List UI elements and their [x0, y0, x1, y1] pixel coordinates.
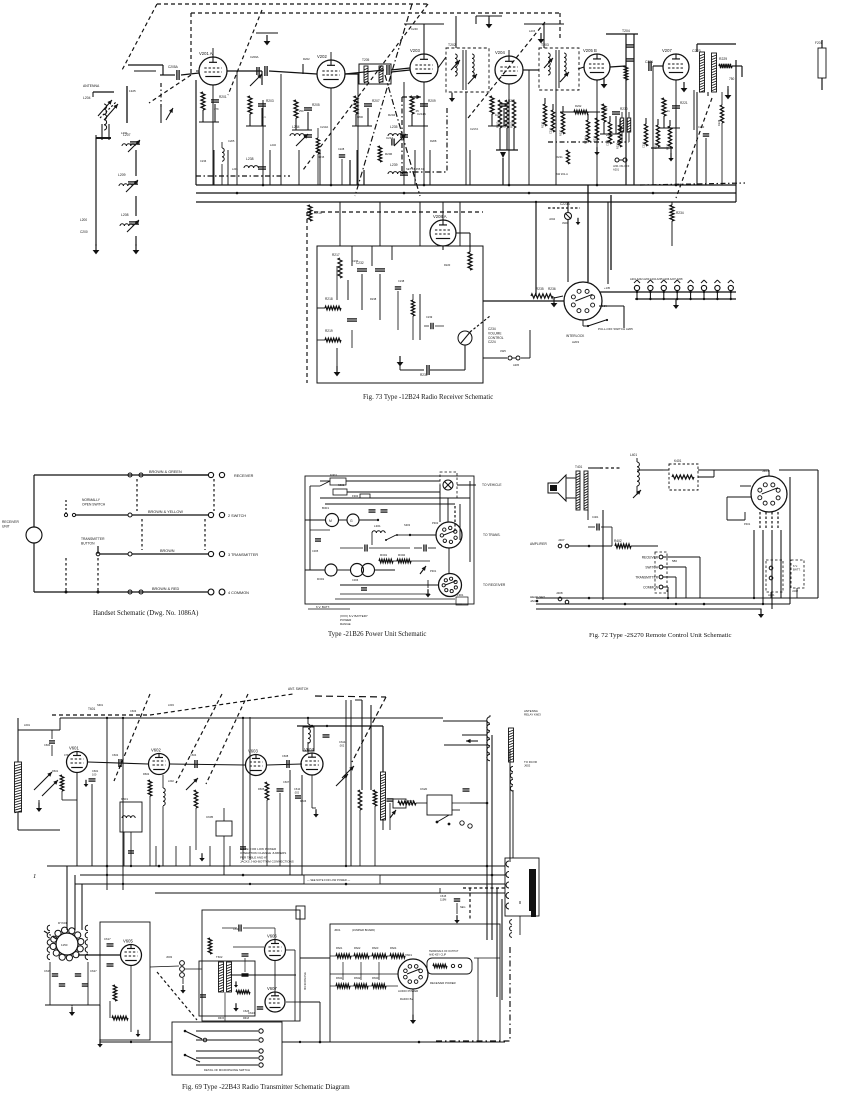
svg-text:RECEIVER POWER: RECEIVER POWER [430, 981, 456, 985]
wire [713, 470, 715, 477]
wire drop [429, 150, 431, 185]
wire drop to bus [357, 74, 359, 185]
variable-capacitor arrow [104, 104, 118, 120]
value label C627 [90, 969, 97, 973]
battery lead label [316, 605, 330, 609]
value label 6800 [357, 115, 363, 119]
relay K301 coil [330, 478, 346, 485]
capacitor C222 [626, 59, 634, 61]
page item number 1 [33, 873, 36, 880]
svg-text:P301: P301 [430, 569, 437, 573]
cable lace (dashed) [213, 479, 215, 511]
socket lead (dashed) [771, 512, 773, 530]
value label R220 [444, 263, 451, 267]
caption handset [93, 610, 198, 617]
input transformer T602 [219, 962, 224, 992]
wire [727, 519, 745, 521]
wire [223, 808, 225, 821]
svg-text:R213: R213 [510, 121, 514, 128]
svg-text:R217: R217 [332, 253, 340, 257]
coil L238 label [246, 157, 254, 161]
terminal lug [219, 589, 225, 595]
ground below T202 [449, 93, 455, 102]
value label C617 [104, 937, 111, 941]
output coupling coil L605 [381, 772, 386, 820]
wire [391, 70, 410, 72]
svg-text:3900: 3900 [562, 221, 568, 225]
wire [330, 603, 462, 605]
resistor R224 [656, 125, 659, 147]
resistor R238 [411, 300, 414, 316]
svg-text:1325: 1325 [129, 89, 136, 93]
switch S301 [385, 534, 398, 541]
svg-text:L602: L602 [168, 779, 174, 783]
value label C616 [233, 927, 240, 931]
wire to riser [470, 802, 487, 804]
svg-text:R631: R631 [336, 976, 343, 980]
wire [130, 1010, 132, 1032]
pilot lamp I301 [443, 480, 453, 490]
svg-text:J407: J407 [558, 538, 565, 542]
svg-text:P302: P302 [432, 521, 439, 525]
value label L231 [232, 167, 238, 171]
wire [371, 533, 373, 545]
wire [162, 806, 164, 830]
variable-capacitor arrow [468, 74, 477, 84]
svg-text:V203: V203 [410, 48, 420, 53]
svg-text:6 V. BATT.: 6 V. BATT. [316, 605, 330, 609]
variable-capacitor arrow [633, 490, 641, 498]
svg-text:R618: R618 [243, 1017, 250, 1020]
terminal 3 (transmitter) [659, 575, 663, 579]
wire [382, 820, 384, 830]
grid cap lead V204 [508, 50, 510, 56]
wire drop to bus [528, 70, 530, 185]
junction dot [624, 603, 627, 606]
value label R222 (vertical) [616, 142, 620, 149]
regulator contact 2 [458, 964, 461, 967]
value label T204 [622, 29, 630, 33]
svg-text:L231: L231 [232, 167, 238, 171]
value label C240 [698, 125, 705, 129]
bottom bus wire 1 [536, 597, 818, 599]
value label S303 [404, 523, 411, 527]
coil L209 winding [119, 184, 132, 186]
bus wire (AVC) [196, 192, 736, 194]
resistor R232 [574, 110, 588, 113]
modulator unit box [100, 922, 150, 1040]
svg-text:R206: R206 [385, 152, 393, 156]
wire [502, 158, 504, 185]
vertical bus h [491, 735, 493, 940]
wire [491, 114, 493, 126]
svg-text:C603: C603 [130, 709, 137, 713]
T205 secondary winding [379, 66, 383, 83]
capacitor C240 [703, 134, 709, 136]
wire drop to bus [555, 88, 557, 185]
value label C238 [398, 279, 405, 283]
wire [97, 589, 99, 592]
jack J201 contacts [615, 158, 627, 162]
handset left wire lower [33, 543, 35, 592]
svg-text:C401: C401 [592, 515, 599, 519]
wire [423, 108, 425, 126]
terminal strip TB401 (dashed) [655, 552, 667, 593]
wire [663, 556, 700, 558]
junction dot [122, 717, 124, 719]
value label R225 (vertical) [666, 143, 670, 150]
wire [182, 978, 184, 984]
dash-dot frame right [446, 108, 448, 172]
relay contact [436, 815, 451, 825]
wire [66, 866, 68, 930]
svg-text:R632: R632 [354, 976, 361, 980]
svg-text:PULL-OFF SWITCH A205: PULL-OFF SWITCH A205 [598, 327, 633, 331]
button contact [96, 552, 100, 556]
junction dot [242, 874, 245, 877]
remote socket lead 4 [780, 530, 782, 598]
junction dot [106, 874, 108, 876]
wire drop [162, 830, 164, 866]
resistor R209 [410, 96, 414, 114]
resistor R221 [662, 98, 666, 116]
value label T202 [448, 43, 456, 47]
value label 3900 [562, 221, 568, 225]
antenna switch label [288, 687, 309, 691]
cable lace (dashed) [141, 519, 143, 550]
audio amplifier section box [317, 246, 483, 383]
wire drop [227, 150, 229, 185]
wire [663, 116, 665, 128]
resistor R225 [668, 126, 671, 148]
junction dot [486, 865, 489, 868]
value label X601 [405, 953, 412, 957]
wire label BROWN [160, 549, 175, 553]
value label R223 (vertical) [541, 121, 545, 128]
value label R621 [336, 946, 343, 950]
svg-text:C223A: C223A [560, 202, 571, 206]
wire [519, 901, 521, 904]
svg-text:R219: R219 [325, 329, 333, 333]
junction dot [311, 725, 313, 727]
svg-text:C228: C228 [338, 147, 345, 151]
wire [45, 1004, 100, 1006]
value label R224 (vertical) [654, 142, 658, 149]
jack A204 contacts [508, 356, 520, 360]
coil L207 with trimmer [123, 133, 131, 137]
wire upper link [128, 64, 163, 66]
capacitor C231 [400, 173, 408, 175]
wire [305, 569, 325, 571]
wire [338, 519, 347, 521]
svg-text:X601: X601 [405, 953, 412, 957]
wire [469, 233, 471, 252]
svg-text:COMMON: COMMON [643, 585, 659, 589]
variable-capacitor arrow [466, 739, 478, 743]
svg-text:C627: C627 [90, 969, 97, 973]
wire [123, 832, 125, 866]
normally open switch label [82, 498, 106, 506]
cable lace (dashed) [204, 519, 206, 550]
pentode V204 [495, 50, 523, 84]
antenna loading coil L601 [15, 762, 22, 813]
capacitor C209 [128, 182, 138, 184]
svg-text:VOLUME: VOLUME [488, 331, 501, 335]
resistor R229 [719, 64, 732, 68]
splice terminal [128, 473, 132, 477]
socket lead (dashed) [759, 512, 761, 530]
junction dot [106, 865, 109, 868]
wire [567, 202, 569, 212]
resistor R230 [602, 104, 606, 122]
value label J401 [762, 469, 769, 473]
power connector P601 shell [505, 858, 539, 916]
bus capacitor C609 [128, 851, 134, 853]
socket ground [410, 1015, 416, 1024]
ground near T201 [725, 89, 732, 99]
wire [552, 104, 554, 110]
resistor R609 [398, 801, 416, 805]
capacitor C616 [239, 925, 241, 932]
variable-capacitor arrow [34, 772, 52, 790]
wire drop [414, 150, 416, 185]
wire [393, 560, 397, 562]
resistor R227 [561, 112, 564, 134]
transmitter power socket X601 [398, 959, 428, 989]
value label C209A [250, 55, 259, 59]
value label 1325 [129, 89, 136, 93]
wire [196, 70, 199, 72]
T603 label [408, 800, 414, 806]
relay contact block [333, 489, 347, 495]
AVC dashed feed [196, 175, 290, 177]
antenna relay K602 contacts [427, 795, 452, 815]
value label R203 [266, 99, 274, 103]
wire [330, 955, 336, 957]
value label R618 [243, 1017, 250, 1020]
value label R232 [575, 104, 582, 108]
wire drop [356, 150, 358, 185]
svg-text:J603: J603 [166, 955, 173, 959]
variable-capacitor arrow [166, 108, 173, 120]
svg-text:R203: R203 [266, 99, 274, 103]
svg-text:C205A: C205A [168, 65, 179, 69]
dynamotor D301 [325, 564, 337, 576]
C602 label [112, 753, 119, 757]
wire [411, 560, 430, 562]
dash-dot frame bottom [402, 171, 447, 173]
svg-text:L235: L235 [390, 125, 398, 129]
wire [663, 469, 669, 471]
capacitor C625 [52, 974, 58, 976]
microphone jack ground [180, 985, 185, 993]
wire [202, 110, 204, 122]
value label R632 [354, 976, 361, 980]
power unit right riser [469, 481, 471, 562]
value label R216 [314, 211, 322, 215]
electrolytic C219a [620, 118, 624, 132]
capacitor C607 [277, 789, 284, 791]
wire [567, 220, 569, 246]
svg-text:R218: R218 [325, 297, 333, 301]
value label R301 [380, 553, 388, 557]
svg-text:AMPLIFIER: AMPLIFIER [530, 542, 548, 546]
wire [307, 112, 309, 130]
power unit left riser [309, 486, 311, 570]
resistor R615 [208, 938, 212, 954]
wire [307, 742, 309, 753]
wire [628, 132, 630, 142]
svg-text:— SEE NOTE FOR LOW POWER —: — SEE NOTE FOR LOW POWER — [307, 878, 350, 882]
right riser wire [817, 470, 819, 598]
wire [404, 23, 444, 25]
wire [360, 962, 362, 980]
value label L401 [630, 453, 637, 457]
svg-text:220K: 220K [606, 133, 612, 137]
capacitor C303 [365, 545, 367, 552]
power unit wire [340, 584, 410, 586]
svg-text:DY601: DY601 [58, 921, 68, 925]
wire [17, 812, 19, 830]
remote socket lead 2 [762, 530, 764, 604]
wire [414, 547, 422, 549]
terminal label TRANSMITTER [635, 575, 658, 579]
value label L602 [168, 779, 174, 783]
wire [130, 966, 132, 1010]
svg-text:C236: C236 [200, 159, 207, 163]
wire [663, 566, 686, 568]
wire [292, 129, 312, 131]
interlock switch S202 [587, 319, 608, 327]
wire [615, 116, 617, 134]
caption Fig 73 [363, 394, 493, 401]
wire [543, 24, 545, 48]
svg-text:1: 1 [33, 873, 36, 880]
svg-text:V602: V602 [151, 748, 161, 753]
duplex diode V207 [662, 48, 689, 80]
value label T205 [362, 58, 369, 62]
capacitor C212 [392, 139, 394, 146]
resistor R603 [194, 790, 198, 808]
C608 label [282, 754, 289, 758]
switch contact [769, 576, 773, 580]
to receiver label (transmitter) [524, 760, 537, 768]
wire [286, 1001, 300, 1003]
tuning gang dashed diagonal [468, 22, 545, 118]
wire drop to bus [625, 130, 627, 185]
wire [732, 65, 742, 67]
wire [419, 294, 421, 340]
svg-text:MICROPHONE: MICROPHONE [303, 972, 307, 990]
T203 core [555, 50, 557, 88]
volume control label [488, 327, 504, 344]
tuning gang dashed vertical [190, 13, 192, 75]
resistor R623 [372, 954, 387, 958]
junction dot [703, 603, 706, 606]
wire [439, 888, 441, 893]
variable-capacitor arrow [420, 566, 426, 574]
wire [636, 458, 638, 462]
wire [130, 832, 132, 866]
power plug P302 (to transmitter) [436, 522, 462, 548]
svg-text:Fig. 72 Type -2S270 Remote C: Fig. 72 Type -2S270 Remote Control Unit … [589, 632, 731, 639]
wire down to L605 [382, 726, 384, 772]
wire label BROWN & YELLOW [148, 510, 183, 514]
junction dot [528, 192, 531, 195]
wire [698, 469, 751, 471]
value label NEG [460, 906, 465, 909]
wire [340, 547, 363, 549]
junction dot [536, 600, 539, 603]
wire [779, 469, 818, 471]
heavy wire at coil bottom [96, 137, 111, 139]
wire [359, 519, 378, 521]
svg-text:A401: A401 [768, 593, 775, 597]
wire [317, 128, 319, 138]
svg-text:R208: R208 [430, 139, 437, 143]
value label C205A [168, 65, 179, 69]
wire label BROWN & RED [152, 587, 179, 591]
plate supply bus [60, 717, 443, 719]
pilot lamp dashed box [440, 472, 457, 498]
gang dashed diagonal 1 [114, 694, 150, 781]
microphone switch detail box [172, 1022, 282, 1075]
svg-text:T601: T601 [88, 707, 95, 711]
bottom bus wire 2 [80, 874, 505, 876]
capacitor C232 [357, 269, 367, 271]
svg-text:L601: L601 [24, 723, 30, 727]
svg-text:2 SWITCH: 2 SWITCH [228, 514, 246, 518]
svg-text:V606: V606 [267, 934, 277, 939]
wire [342, 962, 344, 980]
resistor R602 [148, 780, 152, 796]
resistor R211 [490, 96, 494, 114]
resistor R221 [566, 150, 569, 164]
wire [611, 527, 613, 546]
value label C212 [386, 136, 394, 140]
battery plug (dashed box) [791, 560, 804, 588]
auxiliary contacts [510, 920, 512, 938]
wire [667, 587, 669, 598]
dash-dot lead into dynamotor [44, 931, 58, 940]
pentode V201A [199, 51, 227, 85]
value label R215 [318, 155, 325, 159]
vertical lead of T204 (2) [633, 34, 635, 130]
wire [489, 715, 491, 717]
grid cap lead V203 [423, 48, 425, 54]
svg-text:S303: S303 [404, 523, 411, 527]
svg-text:L207: L207 [123, 133, 131, 137]
value label R238 [370, 297, 377, 301]
junction dot [122, 883, 124, 885]
wire drop to bus [596, 80, 598, 185]
terminal lug [219, 512, 224, 517]
neutralizing feed wire 2 [370, 705, 372, 790]
value label 220K [606, 133, 612, 137]
resistor R624 [390, 954, 405, 958]
wire [369, 547, 410, 549]
svg-text:NORMALLY: NORMALLY [82, 498, 101, 502]
tank capacitor C614 [323, 735, 330, 737]
svg-text:C306: C306 [352, 578, 359, 582]
switch actuator dash [65, 500, 67, 513]
coil L207 winding [122, 144, 135, 146]
relay K603 armature bar [509, 728, 514, 762]
svg-text:C217A: C217A [470, 127, 478, 131]
switch contact [64, 513, 67, 516]
bottom bus wire 4 [155, 892, 505, 894]
resistor R632 [354, 984, 368, 988]
